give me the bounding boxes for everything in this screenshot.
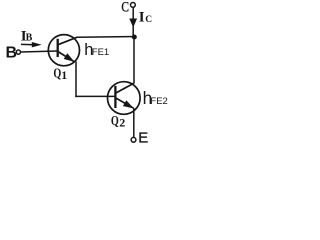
svg-text:B: B bbox=[26, 33, 33, 44]
svg-text:I: I bbox=[139, 10, 145, 26]
svg-text:2: 2 bbox=[119, 116, 125, 130]
wire Q2 emitter down to E bbox=[133, 108, 135, 137]
svg-text:FE1: FE1 bbox=[92, 47, 109, 58]
wire node down to Q2 collector bbox=[133, 37, 135, 83]
current arrow IB bbox=[21, 42, 42, 47]
wire Q1 collector to node (top rail) bbox=[77, 36, 135, 39]
svg-text:C: C bbox=[145, 15, 152, 25]
transistor Q2 bbox=[108, 82, 141, 115]
junction node bbox=[132, 35, 137, 40]
svg-text:B: B bbox=[6, 45, 18, 62]
transistor Q1 bbox=[48, 35, 79, 66]
svg-text:FE2: FE2 bbox=[150, 96, 167, 107]
svg-text:Q: Q bbox=[111, 114, 119, 129]
wire Q1 emitter down bbox=[75, 61, 77, 97]
current arrow IC bbox=[129, 19, 137, 28]
label Q1 bbox=[53, 66, 67, 82]
label hFE2 bbox=[143, 88, 168, 108]
label IB bbox=[21, 28, 33, 44]
terminal B bbox=[16, 50, 20, 54]
wire C to node bbox=[132, 7, 134, 37]
svg-text:C: C bbox=[121, 0, 129, 15]
terminal E bbox=[131, 137, 136, 142]
svg-text:Q: Q bbox=[53, 66, 61, 81]
wire B to Q1 base bbox=[21, 51, 58, 52]
svg-text:E: E bbox=[138, 129, 148, 146]
label Q2 bbox=[111, 114, 125, 130]
terminal C bbox=[131, 3, 136, 8]
wire Q1 emitter to Q2 base bbox=[75, 95, 115, 97]
label IC bbox=[139, 10, 153, 26]
label hFE1 bbox=[84, 41, 109, 59]
svg-text:1: 1 bbox=[61, 68, 67, 82]
